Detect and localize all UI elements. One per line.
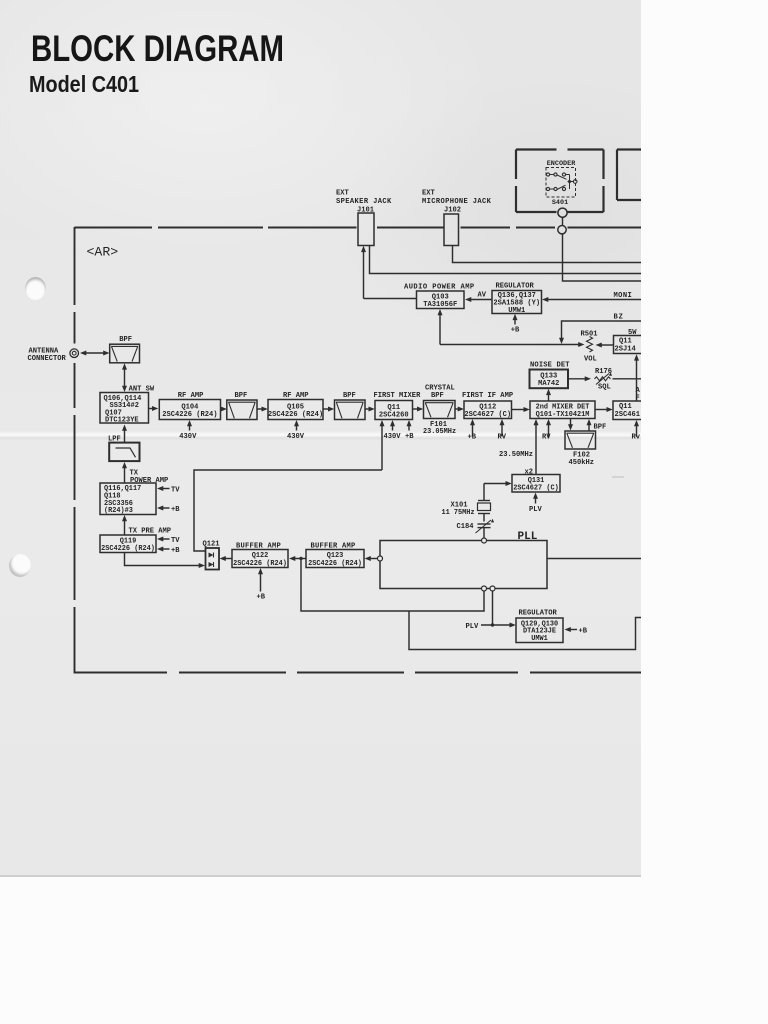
svg-text:23.50MHz: 23.50MHz	[499, 451, 533, 459]
wire PLV into Q131	[535, 498, 537, 504]
wire PLL right edge to page edge	[547, 558, 642, 560]
svg-text:NOISE DET: NOISE DET	[530, 362, 570, 370]
svg-text:J101: J101	[357, 207, 374, 215]
svg-text:POWER AMP: POWER AMP	[130, 477, 168, 485]
svg-text:CONNECTOR: CONNECTOR	[28, 355, 67, 363]
svg-text:2SC4627 (C): 2SC4627 (C)	[513, 485, 559, 493]
wire 23.50MHz from Q131 doubler to 2nd mixer	[535, 425, 537, 475]
wire TV into TX power amp	[162, 488, 170, 490]
svg-text:TV: TV	[171, 487, 180, 495]
wire: left border of AR boundary (dashed)	[74, 227, 76, 305]
wire +B into Q112	[472, 424, 474, 437]
wire from encoder to right edge	[562, 217, 564, 225]
svg-text:2SC4226 (R24): 2SC4226 (R24)	[268, 411, 323, 419]
wire BZ from right edge down to audio line	[562, 321, 643, 339]
wire crystal BPF to first IF amp	[455, 408, 459, 410]
svg-text:TV: TV	[171, 537, 180, 545]
svg-text:450kHz: 450kHz	[569, 459, 595, 467]
wire +B into regulator Q136	[514, 319, 516, 325]
wire first mixer to crystal BPF	[413, 408, 419, 410]
wire +B into Q122	[260, 573, 262, 592]
wire antenna to BPF (bidirectional)	[82, 352, 106, 354]
wire BPF1 to ANT SW (bidirectional)	[124, 368, 126, 388]
svg-text:+B: +B	[171, 547, 180, 555]
svg-text:2SC4627 (C): 2SC4627 (C)	[464, 411, 511, 419]
svg-text:C184: C184	[457, 523, 475, 531]
wire +B into bottom regulator	[569, 629, 577, 631]
wire BPF3 to first mixer	[365, 408, 370, 410]
svg-text:+B: +B	[257, 594, 266, 602]
wire from Q115 switch to volume pot	[600, 344, 614, 346]
svg-text:UMW1: UMW1	[531, 635, 548, 643]
wire: top border of AR boundary (dashed)	[75, 227, 153, 229]
wire 430V supply into Q104	[189, 425, 191, 431]
svg-text:MONI: MONI	[614, 292, 633, 300]
connector circle on AR boundary	[558, 226, 566, 234]
svg-text:Q101-TX10421M: Q101-TX10421M	[536, 411, 590, 419]
wire from audio power amp to J101	[363, 251, 365, 299]
svg-text:J102: J102	[444, 207, 461, 215]
wire AV from regulator to Q103	[468, 299, 492, 301]
wire LPF up to ANT SW	[124, 430, 126, 443]
svg-text:+B: +B	[511, 327, 520, 335]
wire C184 down to PLL	[483, 528, 485, 538]
svg-text:+B: +B	[405, 433, 414, 441]
svg-text:SPEAKER JACK: SPEAKER JACK	[336, 198, 392, 206]
connector J102 ext microphone jack	[444, 214, 459, 246]
svg-text:EXT: EXT	[336, 190, 350, 198]
svg-text:PLV: PLV	[466, 623, 480, 631]
svg-text:REGULATOR: REGULATOR	[519, 610, 558, 618]
svg-text:2SC4260: 2SC4260	[379, 411, 409, 419]
wire TX pre amp to Q121	[125, 553, 201, 566]
svg-text:2SC461: 2SC461	[615, 411, 641, 419]
svg-text:23.05MHz: 23.05MHz	[423, 428, 456, 436]
wire 430V supply into Q105	[296, 425, 298, 431]
svg-text:RV: RV	[542, 434, 551, 442]
svg-text:Rv: Rv	[632, 434, 641, 442]
svg-text:TA31056F: TA31056F	[423, 301, 457, 309]
svg-text:Q11: Q11	[619, 403, 632, 411]
svg-text:RV: RV	[498, 434, 507, 442]
wire TX power amp up to LPF	[124, 467, 126, 483]
svg-text:BPF: BPF	[235, 392, 248, 400]
wire +B into Q119	[162, 548, 170, 550]
svg-text:Q11: Q11	[619, 338, 632, 346]
svg-text:FIRST MIXER: FIRST MIXER	[374, 392, 422, 400]
wire +B supply into first mixer	[408, 425, 410, 431]
wire from squelch pot to right edge	[613, 378, 643, 380]
wire Q104 to BPF2	[221, 408, 223, 410]
wire audio line from volume pot to Q103	[440, 344, 579, 346]
svg-text:430V: 430V	[384, 433, 402, 441]
wire ANT SW to RF amp Q104	[149, 408, 154, 410]
svg-text:VOL: VOL	[584, 356, 597, 364]
wire Q112 to 2nd mixer	[512, 409, 525, 411]
wire Q105 to BPF3	[323, 408, 329, 410]
amplifier Q113 (cut by page edge)	[613, 401, 643, 420]
wire from J102 to right edge	[453, 246, 643, 263]
wire: bottom border of AR boundary (dashed)	[75, 672, 168, 674]
wire 430V supply into first mixer	[392, 425, 394, 431]
mixer U101 2nd MIXER DET	[530, 401, 595, 419]
wire RV into Q112	[501, 424, 503, 437]
svg-text:430V: 430V	[287, 433, 305, 441]
wire RV into 2nd mixer	[548, 424, 550, 437]
wire crystal X101 to Q131	[484, 483, 507, 485]
svg-text:11 75MHz: 11 75MHz	[442, 509, 475, 517]
filter F102 450kHz	[565, 431, 596, 449]
wire MONI from right edge to regulator	[546, 299, 643, 301]
svg-text:AV: AV	[478, 292, 487, 300]
wire 2nd mixer to Q113	[595, 409, 608, 411]
wire RV into Q113	[636, 425, 638, 437]
resistor R176 squelch pot	[568, 378, 586, 380]
wire Q119 to TX power amp	[124, 520, 126, 535]
svg-text:PLV: PLV	[529, 506, 543, 514]
wire PLL to buffer amp Q123	[369, 558, 378, 560]
svg-text:BZ: BZ	[614, 314, 624, 322]
wire +B into TX power amp	[162, 507, 170, 509]
svg-text:+B: +B	[579, 628, 588, 636]
wire from J101 to right edge	[370, 246, 643, 274]
svg-text:2SC4226 (R24): 2SC4226 (R24)	[162, 411, 217, 419]
svg-text:ENCODER: ENCODER	[547, 160, 576, 168]
svg-text:UMW1: UMW1	[508, 307, 525, 315]
svg-text:(R24)#3: (R24)#3	[104, 507, 133, 515]
svg-text:2SJ14: 2SJ14	[615, 346, 637, 354]
wire from Q113 up to Q115 switch	[636, 359, 638, 401]
svg-text:BPF: BPF	[119, 336, 132, 344]
svg-text:SQL: SQL	[598, 384, 611, 392]
svg-text:2SC4226 (R24): 2SC4226 (R24)	[308, 560, 362, 568]
connector J101 ext speaker jack	[358, 213, 374, 246]
svg-text:BPF: BPF	[431, 392, 444, 400]
wire loop from PLL line to right edge	[409, 611, 642, 650]
box: partial module at top right (cut by page edge)	[617, 148, 642, 150]
encoder S401 outer box	[516, 148, 557, 150]
wire local oscillator from PLL buffer to first mixer	[381, 426, 383, 471]
svg-text:MA742: MA742	[538, 380, 559, 388]
svg-text:BPF: BPF	[343, 392, 356, 400]
svg-text:FIRST IF AMP: FIRST IF AMP	[462, 392, 513, 400]
svg-text:S401: S401	[552, 199, 568, 207]
svg-text:<AR>: <AR>	[87, 245, 119, 260]
svg-text:EXT: EXT	[422, 190, 436, 198]
svg-text:2SC4226 (R24): 2SC4226 (R24)	[233, 560, 287, 568]
wire BPF2 to RF amp Q105	[257, 408, 263, 410]
svg-text:430V: 430V	[179, 433, 197, 441]
crystal X101 11.75MHz	[483, 484, 485, 501]
svg-text:REGULATOR: REGULATOR	[496, 283, 535, 291]
wire TV into Q119	[162, 538, 170, 540]
svg-text:2SC4226 (R24): 2SC4226 (R24)	[101, 545, 155, 553]
wire from 2nd mixer up into noise det	[548, 394, 550, 402]
svg-text:R501: R501	[581, 331, 598, 339]
wire F102 filter up to 2nd mixer	[588, 424, 590, 431]
wire Q123 to Q122 with junction to PLL input	[294, 558, 307, 560]
svg-text:+B: +B	[468, 434, 477, 442]
wire 2nd mixer down to F102 filter	[570, 419, 572, 427]
svg-text:+B: +B	[171, 506, 180, 514]
wire Q122 to switching diodes Q121	[224, 558, 232, 560]
connector circle below encoder	[558, 208, 567, 217]
svg-text:DTC123YE: DTC123YE	[105, 417, 139, 425]
svg-text:MICROPHONE JACK: MICROPHONE JACK	[422, 198, 492, 206]
